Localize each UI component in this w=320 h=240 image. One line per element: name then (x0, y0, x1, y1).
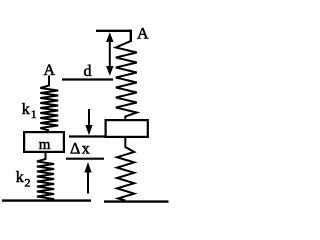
lower dimension line of delta-x (66, 158, 104, 160)
svg-text:k: k (16, 169, 24, 186)
d dimension line (left support line) (62, 78, 113, 80)
svg-text:d: d (84, 63, 92, 80)
svg-text:m: m (39, 137, 51, 153)
double-headed vertical arrow (offset between supports) (109, 37, 111, 72)
left ground line (2, 199, 91, 201)
upper dimension line of delta-x (69, 135, 105, 137)
svg-text:x: x (82, 141, 90, 158)
spring k2 (left lower) (37, 152, 54, 201)
svg-text:Δ: Δ (70, 141, 80, 158)
down arrow (to upper dimension line) (88, 109, 90, 128)
right box (upper mass) (106, 120, 148, 137)
spring (right upper, hangs from right support to upper box) (116, 41, 137, 120)
spring k1 (left upper) (40, 76, 58, 131)
up arrow (to lower dimension line) (87, 170, 89, 194)
svg-text:k: k (22, 101, 30, 118)
svg-text:1: 1 (31, 107, 37, 121)
right ground line (104, 200, 169, 202)
mass box m (24, 132, 64, 152)
svg-text:2: 2 (25, 176, 31, 190)
right support line (96, 31, 131, 42)
svg-text:A: A (137, 26, 149, 43)
spring (right lower, box to ground) (117, 137, 134, 201)
